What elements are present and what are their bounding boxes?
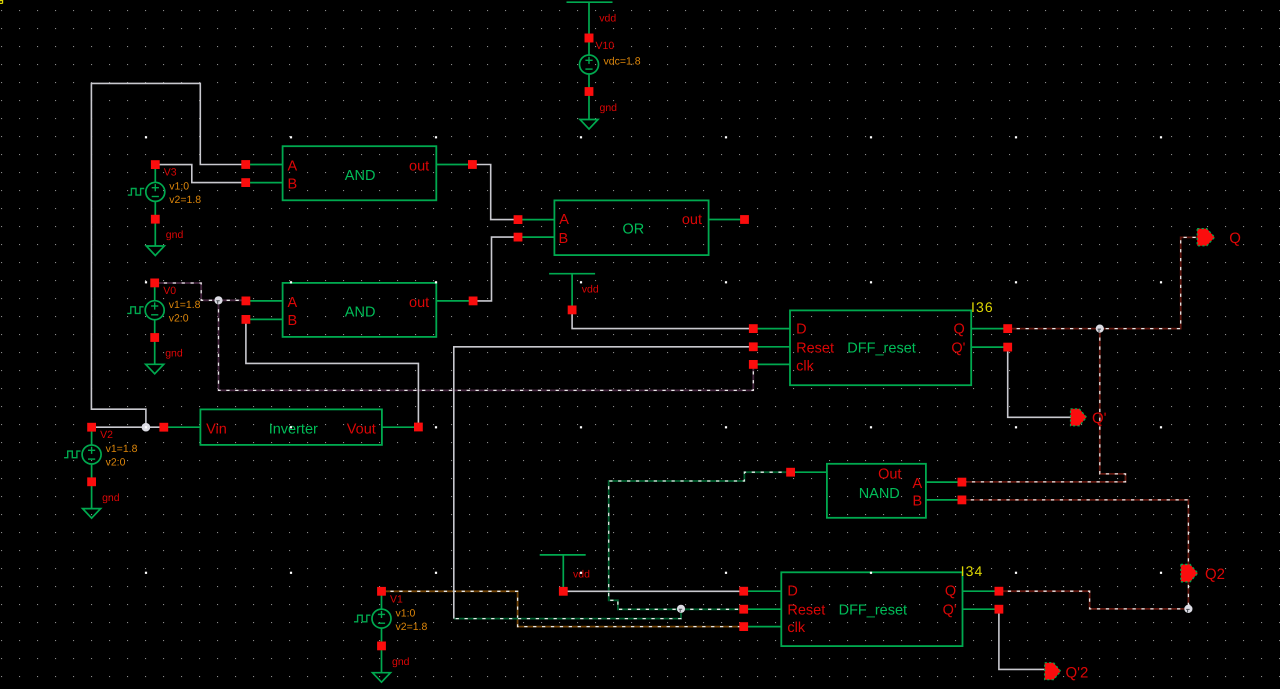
svg-text:clk: clk [787,620,805,636]
pin stub clk [744,626,782,628]
svg-text:A: A [913,476,923,492]
svg-text:vdd: vdd [599,13,616,25]
vdd symbol [549,273,595,275]
pin [559,587,568,596]
svg-text:B: B [913,494,923,510]
svg-text:clk: clk [796,358,814,374]
svg-text:gnd: gnd [165,348,183,360]
pin [585,34,594,43]
svg-text:V10: V10 [596,40,615,52]
pin stub Qbar [971,346,1008,348]
pin (plus terminal) [151,160,160,169]
wire net branch to white riser (green dashed) [454,609,681,618]
junction [1184,605,1192,613]
svg-text:I34: I34 [961,563,984,579]
pin out [740,215,749,224]
svg-text:Q': Q' [951,341,965,357]
svg-text:A: A [288,159,298,175]
output pin Qbar2 [1045,663,1061,680]
pin B [958,496,967,505]
wire vdd -> I34.D [563,590,743,592]
pin stub Out [791,471,827,473]
pin A [514,215,523,224]
pin (plus terminal) [150,279,159,288]
voltage source V2 [82,445,101,464]
svg-text:Q: Q [954,322,965,338]
wire vdd -> I36.D [572,310,753,329]
svg-text:DFF_reset: DFF_reset [847,341,916,357]
nand-gate U_NAND [827,464,926,518]
wire V3 -> AND1.B [155,165,245,183]
svg-text:B: B [288,313,298,329]
pin D [749,324,758,333]
svg-text:OR: OR [623,221,645,237]
svg-text:Q': Q' [1092,410,1107,427]
ground [580,120,598,130]
svg-text:D: D [787,584,797,600]
pin clk [749,360,758,369]
and-gate U_AND2 [283,283,437,337]
wire I34.Qbar -> pin Qbar2 [999,609,1045,669]
ground [146,246,164,256]
pin stub D [753,328,790,330]
svg-text:Q2: Q2 [1205,566,1225,583]
pin stub A [926,481,962,483]
pin B [241,178,250,187]
svg-text:Q': Q' [943,602,957,618]
svg-text:gnd: gnd [102,492,120,504]
wire I36.Qbar -> pin Qbar [1008,347,1071,417]
output pin Qbar [1071,409,1087,426]
wire V2 loop -> AND1.A [91,83,245,427]
wire net V1 -> I34.clk (brown dashed) [382,591,744,626]
svg-text:vdd: vdd [573,569,590,581]
svg-text:AND: AND [345,168,376,184]
svg-text:D: D [796,322,806,338]
svg-text:out: out [409,159,429,175]
wire [154,165,156,183]
and-gate U_AND1 [283,146,437,200]
wire net NAND.Out -> resets (green dashed) [609,472,791,609]
pin stub B [518,236,554,238]
pin Q [995,587,1004,596]
junction [214,296,222,304]
inverter U_INV [200,409,382,445]
dff U_I34 [781,572,962,646]
pin out [469,297,478,306]
pin [568,306,577,315]
output pin Q2 [1181,564,1198,582]
pin Qbar [1003,343,1012,352]
pin Vin [159,423,168,432]
svg-text:vdc=1.8: vdc=1.8 [604,56,641,68]
svg-text:Vout: Vout [347,422,376,438]
svg-text:A: A [559,212,569,228]
wire net V0 -> I36.clk (purple dashed) [219,300,754,390]
wire net Q -> NAND.A (red dashed) [962,329,1126,482]
pin stub A [246,164,283,166]
pin (plus terminal) [87,423,96,432]
svg-text:gnd: gnd [166,229,184,241]
pin (minus terminal) [151,215,160,224]
pin Vout [414,423,423,432]
svg-text:Q: Q [945,584,956,600]
svg-text:v2=1.8: v2=1.8 [396,621,428,633]
wire net V0 -> AND2.A (purple dashed) [155,283,242,300]
wire [381,591,383,609]
pin Q [1003,324,1012,333]
pin B [514,233,523,242]
vdd symbol [540,554,586,556]
svg-text:V3: V3 [164,167,177,179]
svg-text:gnd: gnd [600,102,618,114]
pin stub B [246,182,283,184]
svg-text:v1=1.8: v1=1.8 [106,443,138,455]
svg-text:Q: Q [1229,230,1241,247]
selection corner [0,0,3,3]
svg-text:gnd: gnd [392,656,410,668]
pin stub out [436,300,473,302]
pin stub out [709,219,745,221]
pin stub B [926,499,962,501]
svg-text:NAND: NAND [859,486,900,502]
pin B [242,315,251,324]
svg-text:DFF_reset: DFF_reset [839,602,908,618]
wire [154,283,156,301]
voltage source V1 [372,609,391,628]
svg-text:Vin: Vin [206,422,227,438]
pin A [958,478,967,487]
pin D [739,587,748,596]
pin stub out [436,164,472,166]
pin clk [739,622,748,631]
svg-text:Out: Out [878,466,901,482]
wire net I34.Q -> junction (red dashed) [999,591,1189,609]
pin stub Qbar [963,608,999,610]
ground [373,673,391,683]
wire riser -> I36.Reset [454,347,754,619]
svg-text:Inverter: Inverter [269,422,318,438]
svg-text:AND: AND [345,305,376,321]
pin [585,34,594,43]
pin out [468,160,477,169]
svg-text:V1: V1 [390,593,403,605]
pin stub Vout [382,426,419,428]
svg-text:A: A [288,295,298,311]
svg-text:v2=1.8: v2=1.8 [169,194,201,206]
junction [677,605,685,613]
dff U_I36 [790,310,971,385]
pin stub Q [963,590,999,592]
pin stub D [744,590,782,592]
voltage source V10 [580,55,599,74]
pin stub A [518,219,554,221]
junction [1096,325,1104,333]
pin stub B [246,318,283,320]
wire AND1.out -> OR.A [472,165,518,220]
svg-text:Q'2: Q'2 [1066,665,1089,682]
pin stub clk [753,363,790,365]
svg-text:v1:0: v1:0 [396,607,416,619]
svg-text:B: B [559,231,569,247]
wire net NAND.B -> Q2 (red dashed) [962,500,1189,609]
pin (minus terminal) [377,642,386,651]
ground [146,364,164,374]
pin stub Reset [744,608,782,610]
svg-text:out: out [682,212,702,228]
or-gate U_OR [554,200,708,255]
pin Qbar [995,605,1004,614]
svg-text:v1:0: v1:0 [169,181,189,193]
svg-text:Reset: Reset [787,602,825,618]
coarse grid markers [145,136,147,138]
ground [83,509,101,518]
junction [142,423,151,432]
svg-text:Reset: Reset [796,341,834,357]
svg-text:v2:0: v2:0 [169,312,189,324]
wire Inverter.Vout -> AND2.B [246,319,419,427]
pin A [242,297,251,306]
pin (minus terminal) [87,477,96,486]
pin [585,87,594,96]
wire [91,427,93,445]
pin stub Vin [164,426,201,428]
svg-text:vdd: vdd [582,284,599,296]
svg-text:v1=1.8: v1=1.8 [169,299,201,311]
wire net I36.Q -> pin Q (red dashed) [1008,237,1197,328]
svg-text:V2: V2 [100,429,113,441]
svg-text:I36: I36 [971,299,994,315]
pin (minus terminal) [150,333,159,342]
pin A [241,160,250,169]
wire AND2.out -> OR.B [473,237,518,301]
pin Reset [749,342,758,351]
voltage source V0 [145,301,164,320]
svg-text:V0: V0 [163,285,176,297]
svg-text:v2:0: v2:0 [106,457,126,469]
wire V2 -> Inverter.Vin [92,426,164,428]
pin stub A [246,300,283,302]
pin Out [786,468,795,477]
vdd symbol [567,1,613,3]
pin Reset [739,605,748,614]
svg-text:out: out [409,295,429,311]
svg-text:B: B [288,176,298,192]
voltage source V3 [146,182,165,201]
wire [588,38,590,55]
pin (plus terminal) [377,587,386,596]
output pin Q [1197,229,1215,246]
pin stub Reset [753,346,790,348]
pin stub Q [971,328,1008,330]
